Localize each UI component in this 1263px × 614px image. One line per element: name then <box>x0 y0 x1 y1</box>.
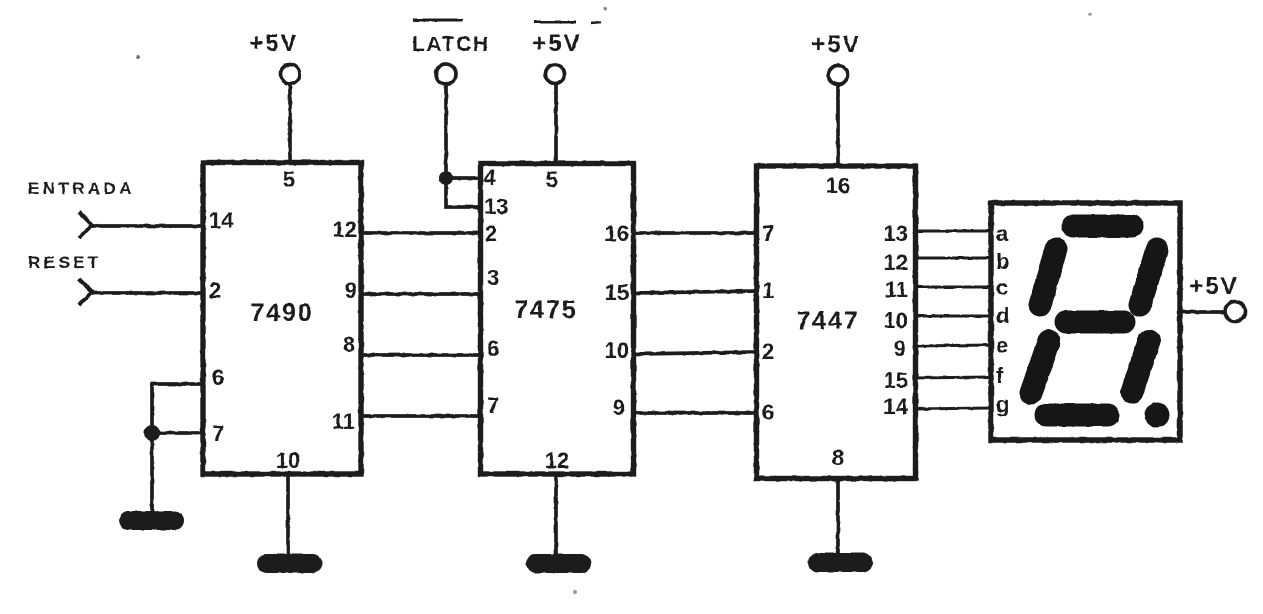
wire U1 pin 10 to ground <box>286 476 290 555</box>
display DS1 body <box>991 203 1180 440</box>
U3 pin 12 label <box>884 250 908 275</box>
wire U1 pin 11 to U2 pin 7 <box>361 414 481 418</box>
svg-text:15: 15 <box>884 368 908 393</box>
wire U1 pin 9 to U2 pin 3 <box>361 292 481 296</box>
U1 value label 7490 <box>250 299 314 327</box>
U1 pin 2 label <box>209 278 221 303</box>
DS1 pin f label <box>996 363 1004 388</box>
svg-text:6: 6 <box>212 365 224 390</box>
node LATCH label <box>412 33 490 56</box>
svg-text:16: 16 <box>826 173 850 198</box>
wire U1 pin 12 to U2 pin 2 <box>361 231 481 235</box>
DS1 segment g <box>1066 311 1124 334</box>
U2 pin 6 label <box>487 336 499 361</box>
svg-text:7: 7 <box>762 221 774 246</box>
U3 pin 1 label <box>762 278 774 303</box>
svg-text:+5V: +5V <box>532 30 581 57</box>
node RESET label <box>28 253 102 272</box>
svg-text:5: 5 <box>546 167 558 192</box>
svg-text:+5V: +5V <box>249 30 298 57</box>
DS1 pin a label <box>996 221 1009 246</box>
svg-text:4: 4 <box>484 165 497 190</box>
wire U3 pin 8 to ground <box>836 479 840 554</box>
stray mark dash <box>591 22 601 23</box>
U2 pin 13 label <box>484 194 508 219</box>
node LATCH overbar <box>413 19 463 22</box>
svg-text:5: 5 <box>283 167 295 192</box>
svg-text:ENTRADA: ENTRADA <box>28 179 135 198</box>
wire U2 pin 12 to ground <box>554 476 558 555</box>
junction U1 pins 6-7 <box>144 425 160 441</box>
wire U3 pin 15 to DS1 f <box>913 377 991 378</box>
svg-text:13: 13 <box>484 194 508 219</box>
stray mark speck <box>573 590 577 594</box>
svg-text:9: 9 <box>894 336 906 361</box>
svg-text:6: 6 <box>762 400 774 425</box>
wire U3 pin 13 to DS1 a <box>913 230 991 233</box>
U2 pin 16 label <box>605 221 629 246</box>
svg-text:15: 15 <box>605 280 629 305</box>
svg-text:g: g <box>996 392 1009 417</box>
wire +5V to U2 pin 5 <box>554 84 558 162</box>
svg-text:14: 14 <box>884 394 909 419</box>
wire junction to ground <box>150 433 154 512</box>
svg-text:12: 12 <box>884 250 908 275</box>
svg-text:b: b <box>996 249 1009 274</box>
DS1 pin g label <box>996 392 1009 417</box>
U1 pin 12 label <box>333 217 357 242</box>
wire U3 pin 14 to DS1 g <box>913 408 991 409</box>
wire U2 pin 10 to U3 pin 2 <box>634 352 758 354</box>
svg-text:10: 10 <box>884 308 908 333</box>
svg-text:16: 16 <box>605 221 629 246</box>
LATCH terminal circle <box>436 64 456 84</box>
svg-text:13: 13 <box>884 221 908 246</box>
wire DS1 to +5V <box>1182 310 1225 314</box>
svg-text:RESET: RESET <box>28 253 102 272</box>
wire LATCH to U2 pin 13 <box>446 178 479 207</box>
DS1 segment a <box>1073 215 1132 238</box>
svg-text:f: f <box>996 363 1004 388</box>
svg-text:11: 11 <box>332 409 355 434</box>
stray mark speck <box>1088 12 1092 16</box>
svg-text:8: 8 <box>343 332 355 357</box>
wire LATCH down <box>444 84 448 178</box>
svg-text:9: 9 <box>613 395 625 420</box>
stray mark speck <box>136 55 140 59</box>
wire U2 pin 16 to U3 pin 7 <box>634 231 758 235</box>
svg-text:10: 10 <box>276 448 300 473</box>
ground GND4 <box>808 553 873 572</box>
U2 pin 4 label <box>484 165 497 190</box>
node ENTRADA label <box>28 179 135 198</box>
U2 pin 9 label <box>613 395 625 420</box>
U3 pin 16 label <box>826 173 850 198</box>
svg-text:e: e <box>996 333 1008 358</box>
wire U2 pin 15 to U3 pin 1 <box>634 291 758 293</box>
U3 pin 10 label <box>884 308 908 333</box>
power terminal circle (right of DS1) <box>1225 302 1245 322</box>
ENTRADA input arrow <box>79 212 92 238</box>
svg-text:7: 7 <box>212 421 224 446</box>
svg-text:7: 7 <box>487 393 499 418</box>
U1 pin 14 label <box>209 208 234 233</box>
svg-text:6: 6 <box>487 336 499 361</box>
svg-text:+5V: +5V <box>1189 273 1238 300</box>
wire ENTRADA to U1 pin 14 <box>92 224 201 228</box>
svg-text:d: d <box>996 303 1009 328</box>
svg-text:12: 12 <box>333 217 357 242</box>
ground GND3 <box>526 554 591 573</box>
power terminal circle (over U2) <box>546 65 565 84</box>
U3 pin 14 label <box>884 394 909 419</box>
svg-text:10: 10 <box>605 338 629 363</box>
svg-text:14: 14 <box>209 208 234 233</box>
U2 pin 7 label <box>487 393 499 418</box>
U1 pin 11 label <box>332 409 355 434</box>
U1 pin 8 label <box>343 332 355 357</box>
wire +5V to U1 pin 5 <box>288 84 292 162</box>
wire U2 pin 9 to U3 pin 6 <box>634 411 758 415</box>
U1 pin 6 label <box>212 365 224 390</box>
svg-text:1: 1 <box>762 278 774 303</box>
svg-text:7475: 7475 <box>514 296 578 324</box>
U2 pin 2 label <box>485 221 497 246</box>
svg-text:c: c <box>996 275 1008 300</box>
svg-text:8: 8 <box>832 445 844 470</box>
U3 pin 15 label <box>884 368 908 393</box>
DS1 pin d label <box>996 303 1009 328</box>
DS1 pin e label <box>996 333 1008 358</box>
wire U3 pin 12 to DS1 b <box>913 257 991 260</box>
junction LATCH node <box>439 171 453 185</box>
svg-text:11: 11 <box>885 277 908 302</box>
wire LATCH to U2 pin 4 <box>446 176 479 180</box>
ground GND2 <box>257 554 322 573</box>
svg-text:2: 2 <box>762 339 774 364</box>
IC U3 7447 body <box>757 166 916 479</box>
power terminal +5V overbar (over U2) <box>534 21 576 24</box>
DS1 segment c <box>1132 341 1149 392</box>
wire U1 pin 6 down <box>152 384 202 433</box>
power terminal +5V label (over U1) <box>249 30 298 57</box>
U3 pin 11 label <box>885 277 908 302</box>
IC U2 7475 body <box>481 164 634 475</box>
power terminal +5V label (over U2) <box>532 30 581 57</box>
svg-text:a: a <box>996 221 1009 246</box>
svg-text:+5V: +5V <box>811 31 860 58</box>
U3 pin 2 label <box>762 339 774 364</box>
stray mark speck <box>603 7 607 11</box>
IC U1 7490 body <box>203 163 361 475</box>
svg-text:7490: 7490 <box>250 299 314 327</box>
DS1 segment e <box>1031 341 1049 393</box>
wire U3 pin 9 to DS1 e <box>913 345 991 346</box>
U3 pin 8 label <box>832 445 844 470</box>
wire U1 pin 8 to U2 pin 6 <box>361 353 481 357</box>
svg-text:12: 12 <box>545 448 569 473</box>
power terminal +5V label (over U3) <box>811 31 860 58</box>
DS1 segment f <box>1040 249 1056 305</box>
DS1 decimal point <box>1145 403 1170 428</box>
svg-text:LATCH: LATCH <box>412 33 490 56</box>
U2 pin 12 label <box>545 448 569 473</box>
DS1 segment b <box>1140 249 1157 305</box>
DS1 pin b label <box>996 249 1009 274</box>
U1 pin 7 label <box>212 421 224 446</box>
svg-text:9: 9 <box>345 278 357 303</box>
U3 pin 13 label <box>884 221 908 246</box>
RESET input arrow <box>79 279 92 305</box>
U3 pin 9 label <box>894 336 906 361</box>
svg-text:2: 2 <box>485 221 497 246</box>
U1 pin 5 label <box>283 167 295 192</box>
U2 pin 5 label <box>546 167 558 192</box>
U3 pin 6 label <box>762 400 774 425</box>
svg-text:3: 3 <box>487 265 499 290</box>
U1 pin 9 label <box>345 278 357 303</box>
U2 pin 15 label <box>605 280 629 305</box>
U2 value label 7475 <box>514 296 578 324</box>
svg-text:7447: 7447 <box>796 307 860 335</box>
power terminal circle (over U3) <box>829 66 848 85</box>
wire RESET to U1 pin 2 <box>92 291 201 295</box>
svg-text:2: 2 <box>209 278 221 303</box>
ground GND1 <box>119 511 184 530</box>
power terminal circle (over U1) <box>281 65 300 84</box>
wire +5V to U3 pin 16 <box>836 85 840 165</box>
DS1 pin c label <box>996 275 1008 300</box>
wire U3 pin 10 to DS1 d <box>913 315 991 318</box>
U3 pin 7 label <box>762 221 774 246</box>
wire U3 pin 11 to DS1 c <box>913 286 991 289</box>
wire U1 pin 7 to junction <box>152 431 202 435</box>
DS1 segment d <box>1046 404 1108 427</box>
U2 pin 3 label <box>487 265 499 290</box>
power terminal +5V label (right of DS1) <box>1189 273 1238 300</box>
U1 pin 10 label <box>276 448 300 473</box>
U2 pin 10 label <box>605 338 629 363</box>
U3 value label 7447 <box>796 307 860 335</box>
